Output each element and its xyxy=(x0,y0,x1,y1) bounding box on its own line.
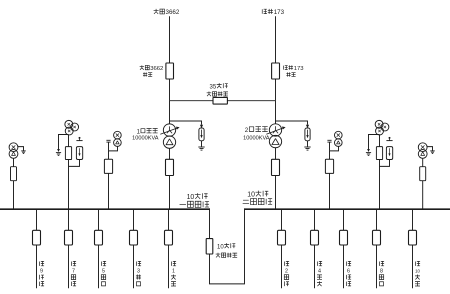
wire PT A2 xyxy=(422,158,424,166)
wire T2 LV lead xyxy=(275,148,277,160)
svg-text:10000KVA: 10000KVA xyxy=(132,135,159,141)
arrester PT B2 body xyxy=(386,147,392,160)
label feeder 浄7田渡 xyxy=(71,261,76,266)
ground arrester1 xyxy=(198,146,204,148)
PT B2 earth branch xyxy=(369,135,380,150)
wire PT C2 link xyxy=(330,146,339,151)
arrester F2 body xyxy=(305,128,310,141)
wire PT C2 to bus xyxy=(329,173,331,209)
label 分段开关 (tie) xyxy=(216,253,221,258)
label 分段开关 xyxy=(207,91,212,96)
svg-text:10: 10 xyxy=(415,269,420,274)
svg-text:10: 10 xyxy=(217,244,224,250)
wire T1 LV lead xyxy=(169,148,171,159)
wire arrester2 to ground xyxy=(307,141,309,147)
label feeder 浄5翻石 xyxy=(101,261,106,266)
wire feeder 浄4华元 upper xyxy=(314,209,316,230)
fuse PT B xyxy=(68,135,70,147)
wire PT A xyxy=(13,158,15,166)
transformer T2 tap changer arrow xyxy=(266,128,283,134)
breaker T1 10kV xyxy=(166,159,174,175)
wire feeder 浄1广复 upper xyxy=(168,209,170,230)
wire PT A2 to bus xyxy=(422,181,424,210)
PT B earth branch xyxy=(59,135,69,150)
35kV section switch 35千伏分段开关 xyxy=(213,97,227,104)
fuse PT C xyxy=(108,151,110,159)
wire feeder 浄9化纤 lower xyxy=(36,245,38,288)
wire arrester PT B2 join xyxy=(380,160,390,167)
bus 10kV section 2 xyxy=(245,208,450,210)
wire feeder 浄5翻石 upper xyxy=(98,209,100,230)
svg-text:10000KVA: 10000KVA xyxy=(243,135,270,141)
label 万库3662 开关 xyxy=(140,65,144,69)
transformer T2 2号主变 star winding xyxy=(269,124,281,136)
PT A2 winding 1 xyxy=(418,143,427,152)
PT A winding 2 xyxy=(9,150,18,159)
breaker feeder 浄8塘口 xyxy=(373,230,381,245)
PT A winding 1 xyxy=(9,143,18,152)
breaker feeder 浄9化纤 xyxy=(33,230,41,245)
transformer T1 1号主变 star winding xyxy=(163,124,175,136)
wire PT A to bus xyxy=(13,181,15,210)
PT C2 winding 1 xyxy=(335,131,343,139)
wire feeder 浄8塘口 upper xyxy=(376,209,378,230)
wire T1 to bus 1 xyxy=(169,176,171,210)
wire T2 to bus 2 xyxy=(275,176,277,210)
svg-text:9: 9 xyxy=(40,269,43,275)
breaker feeder 浄10大庄 xyxy=(409,230,417,245)
PT C2 isolator bars xyxy=(327,139,331,141)
svg-text:8: 8 xyxy=(380,269,383,275)
wire feeder 浄10大庄 lower xyxy=(412,245,414,288)
svg-text:6: 6 xyxy=(347,269,350,275)
wire incoming line 1 (万库3662) xyxy=(169,16,171,63)
wire 35kV tie bus right xyxy=(227,100,275,102)
wire PT C link xyxy=(109,146,118,151)
wire arrester branch 2 xyxy=(276,121,308,125)
breaker feeder 浄3井另 xyxy=(130,230,138,245)
svg-text:10: 10 xyxy=(247,192,255,199)
svg-text:1: 1 xyxy=(172,269,175,275)
PT A2 earth stub xyxy=(427,147,433,151)
wire feeder 浄6浄港 upper xyxy=(343,209,345,230)
label feeder 浄4华元 xyxy=(317,261,322,266)
wire arrester branch 1 xyxy=(170,121,202,125)
label feeder 浄1广复 xyxy=(171,261,176,266)
wire feeder 浄8塘口 lower xyxy=(376,245,378,288)
transformer T2 delta winding xyxy=(269,135,281,147)
svg-text:4: 4 xyxy=(318,269,321,275)
section switch 10千伏分段开关 xyxy=(206,239,213,254)
label 二段母线 xyxy=(243,200,249,203)
arrester F1 arrow-in xyxy=(200,125,203,128)
breaker feeder 浄2雕饰 xyxy=(278,230,286,245)
arrester PT B2 terminal xyxy=(389,137,391,139)
label 隐顺173 开关 xyxy=(284,66,288,70)
label feeder 浄9化纤 xyxy=(39,261,44,266)
arrester PT B terminal xyxy=(79,137,81,139)
arrester PT B body xyxy=(76,147,82,160)
PT C2 winding 2 xyxy=(335,139,343,147)
PT B2 windings (3 circles) xyxy=(375,120,383,128)
svg-text:3662: 3662 xyxy=(166,9,180,16)
breaker QF1 万库3662开关 xyxy=(166,63,174,79)
label feeder 浄3井另 xyxy=(136,261,141,266)
incoming feeder label 隐顺173 xyxy=(262,9,267,14)
svg-text:7: 7 xyxy=(72,269,75,275)
PT B windings (3 circles) xyxy=(65,120,73,128)
wire feeder 浄7田渡 upper xyxy=(68,209,70,230)
arrester F2 arrow-in xyxy=(306,125,309,128)
transformer T1 delta winding xyxy=(163,136,175,148)
svg-text:173: 173 xyxy=(294,66,305,72)
fuse PT A2 xyxy=(420,167,426,181)
wire PT B2 to bus xyxy=(379,160,381,210)
svg-text:5: 5 xyxy=(102,269,105,275)
svg-text:173: 173 xyxy=(274,9,285,16)
breaker feeder 浄7田渡 xyxy=(65,230,73,245)
svg-text:35: 35 xyxy=(210,84,217,90)
wire feeder 浄10大庄 upper xyxy=(412,209,414,230)
PT A2 winding 2 xyxy=(418,150,427,159)
wire PT C to bus xyxy=(108,173,110,209)
PT A earth stub xyxy=(18,147,24,151)
bus 10kV section 1 xyxy=(0,208,210,210)
label feeder 浄2雕饰 xyxy=(284,261,289,266)
wire arrester PT B join xyxy=(69,160,80,167)
wire feeder 浄2雕饰 upper xyxy=(281,209,283,230)
breaker feeder 浄4华元 xyxy=(311,230,319,245)
breaker QF2 隐顺173开关 xyxy=(272,63,280,79)
svg-text:2: 2 xyxy=(245,127,249,134)
fuse PT C2 xyxy=(329,151,331,159)
arrester F1 body xyxy=(199,128,204,141)
wire feeder 浄7田渡 lower xyxy=(68,245,70,288)
wire feeder 浄5翻石 lower xyxy=(98,245,100,288)
incoming feeder label 万库3662 xyxy=(154,9,159,14)
breaker feeder 浄1广复 xyxy=(165,230,173,245)
PT C isolator bars xyxy=(106,139,110,141)
wire feeder 浄3井另 lower xyxy=(133,245,135,288)
label 一段母线 xyxy=(180,204,186,206)
PT C winding 1 xyxy=(114,131,122,139)
PT C winding 2 xyxy=(114,139,122,147)
breaker T2 10kV xyxy=(272,159,280,175)
wire feeder 浄4华元 lower xyxy=(314,245,316,288)
wire bus1 end drop xyxy=(209,208,211,238)
svg-text:3662: 3662 xyxy=(150,66,163,72)
svg-text:10: 10 xyxy=(187,194,195,201)
breaker feeder 浄6浄港 xyxy=(340,230,348,245)
svg-text:2: 2 xyxy=(285,269,288,275)
wire feeder 浄1广复 lower xyxy=(168,245,170,288)
label feeder 浄6浄港 xyxy=(346,261,351,266)
fuse PT A xyxy=(11,167,17,181)
wire feeder 浄9化纤 upper xyxy=(36,209,38,230)
wire transformer1 HV lead xyxy=(169,101,171,124)
wire PT B to bus xyxy=(68,160,70,210)
svg-text:3: 3 xyxy=(137,269,140,275)
label feeder 浄8塘口 xyxy=(379,261,384,266)
wire below breaker QF1 xyxy=(169,79,171,101)
wire tie bottom U xyxy=(210,208,245,284)
wire incoming line 2 (隐顺173) xyxy=(275,16,277,63)
wire below breaker QF2 xyxy=(275,79,277,101)
wire arrester1 to ground xyxy=(201,141,203,147)
wire feeder 浄3井另 upper xyxy=(133,209,135,230)
ground arrester2 xyxy=(304,146,310,148)
wire feeder 浄6浄港 lower xyxy=(343,245,345,288)
label feeder 浄10大庄 xyxy=(415,261,420,266)
wire transformer2 HV lead xyxy=(275,101,277,124)
wire feeder 浄2雕饰 lower xyxy=(281,245,283,288)
transformer T1 tap changer arrow xyxy=(160,128,177,134)
fuse PT B2 xyxy=(379,135,381,147)
35kV tie bus wire left xyxy=(170,100,214,102)
breaker feeder 浄5翻石 xyxy=(95,230,103,245)
